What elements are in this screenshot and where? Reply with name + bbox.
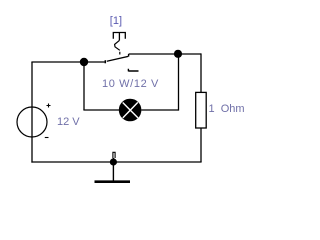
wire resistor top lead [200, 53, 202, 92]
ground terminal stub above dot [113, 152, 115, 158]
switch S1 right contact hook [128, 54, 130, 57]
wire bottom horizontal run [31, 161, 201, 163]
resistor R1 body [196, 92, 207, 128]
battery (voltage source) V1 circle [17, 107, 47, 137]
wire lamp left horizontal [83, 109, 119, 111]
lamp L1 white X [123, 102, 138, 118]
lamp L1 disc [119, 99, 142, 122]
switch S1 left contact tick [104, 60, 106, 63]
ground stem [112, 158, 114, 181]
switch actuator linkage zigzag [115, 40, 120, 50]
wire top-left horizontal run [31, 61, 104, 63]
ground bar [95, 180, 131, 183]
battery minus sign [45, 137, 49, 139]
wire top-right horizontal run [129, 53, 201, 55]
wire lamp branch left vertical [83, 62, 85, 110]
label 10 W/12 V for lamp [102, 78, 159, 90]
switch actuator linkage dash [119, 52, 121, 55]
wire resistor bottom lead [200, 128, 202, 162]
junction node A dot [80, 58, 88, 66]
wire battery bottom to bottom-left corner [31, 137, 33, 162]
label 1 Ohm for resistor [209, 103, 245, 115]
battery plus sign [47, 104, 51, 108]
switch actuator bracket [113, 33, 125, 39]
label 12 V for battery [57, 116, 80, 128]
label [1] for switch [110, 15, 122, 27]
junction node B dot [174, 50, 182, 58]
switch S1 lever [107, 56, 128, 61]
wire lamp right horizontal [141, 109, 178, 111]
ground junction dot [110, 158, 117, 165]
wire lamp branch right vertical [178, 54, 180, 111]
battery internal wire through circle [31, 107, 33, 137]
wire left vertical top (battery top to top-left corner) [31, 62, 33, 107]
switch S1 unused lower contact stub [128, 69, 138, 72]
switch actuator stem [118, 33, 120, 41]
